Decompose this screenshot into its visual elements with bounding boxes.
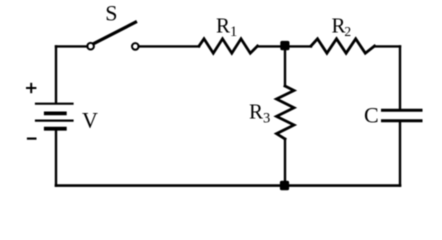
svg-text:R2: R2 xyxy=(332,14,352,40)
svg-text:V: V xyxy=(82,108,98,133)
svg-text:S: S xyxy=(105,0,117,25)
svg-text:R1: R1 xyxy=(216,13,237,40)
svg-text:R3: R3 xyxy=(249,99,270,126)
svg-text:C: C xyxy=(364,103,379,128)
